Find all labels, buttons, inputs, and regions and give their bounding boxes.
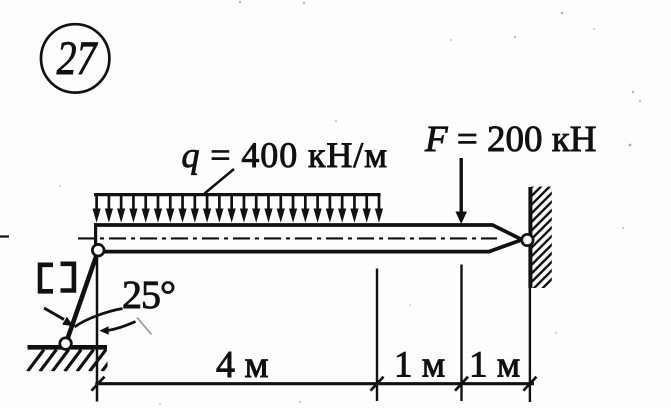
centerline left margin artifact bbox=[0, 235, 9, 237]
wall hatching bbox=[529, 165, 554, 302]
beam bottom line bbox=[100, 240, 522, 252]
svg-text:27: 27 bbox=[57, 32, 99, 85]
dimension line bbox=[95, 382, 534, 385]
left hinge of beam bbox=[92, 244, 104, 256]
beam top line bbox=[94, 225, 522, 240]
rod section bracket symbol [ ] bbox=[40, 264, 74, 292]
right pin hinge bbox=[522, 234, 533, 245]
beam centerline dash-dot bbox=[78, 237, 497, 239]
angle arc with left arrowhead bbox=[99, 322, 135, 335]
extension line under load end bbox=[376, 269, 378, 402]
label 1 m (first) bbox=[394, 345, 445, 386]
label 4 m bbox=[216, 344, 269, 386]
ground hatching bbox=[28, 350, 119, 372]
arrow pointing at rod bbox=[44, 308, 74, 326]
label q = 400 kN/m bbox=[182, 135, 388, 175]
svg-text:F = 200 кН: F = 200 кН bbox=[424, 119, 596, 160]
problem number circle 27 bbox=[41, 24, 109, 92]
leader line for q label bbox=[205, 169, 235, 194]
lower hinge of rod bbox=[60, 338, 72, 350]
svg-text:q = 400 кН/м: q = 400 кН/м bbox=[182, 135, 388, 175]
support rod bbox=[66, 251, 98, 343]
ground line bbox=[28, 345, 108, 350]
svg-text:25°: 25° bbox=[122, 272, 175, 317]
svg-text:1 м: 1 м bbox=[469, 345, 520, 386]
distributed load arrows bbox=[93, 194, 384, 223]
angle arc from label to rod bbox=[75, 309, 123, 328]
label 1 m (second) bbox=[469, 345, 520, 386]
beam left edge bbox=[94, 223, 97, 246]
distributed load q top line bbox=[94, 193, 381, 196]
vertical extension line at left support bbox=[96, 250, 99, 402]
faint scan slash artifact bbox=[137, 318, 152, 335]
force F arrow bbox=[455, 158, 467, 224]
extension line under force F bbox=[460, 265, 462, 402]
label F = 200 kN bbox=[424, 119, 596, 160]
svg-text:1 м: 1 м bbox=[394, 345, 445, 386]
angle 25 deg label bbox=[122, 272, 175, 317]
svg-text:4 м: 4 м bbox=[216, 344, 269, 386]
wall support line bbox=[528, 187, 533, 402]
dimension tick slashes bbox=[92, 377, 537, 391]
